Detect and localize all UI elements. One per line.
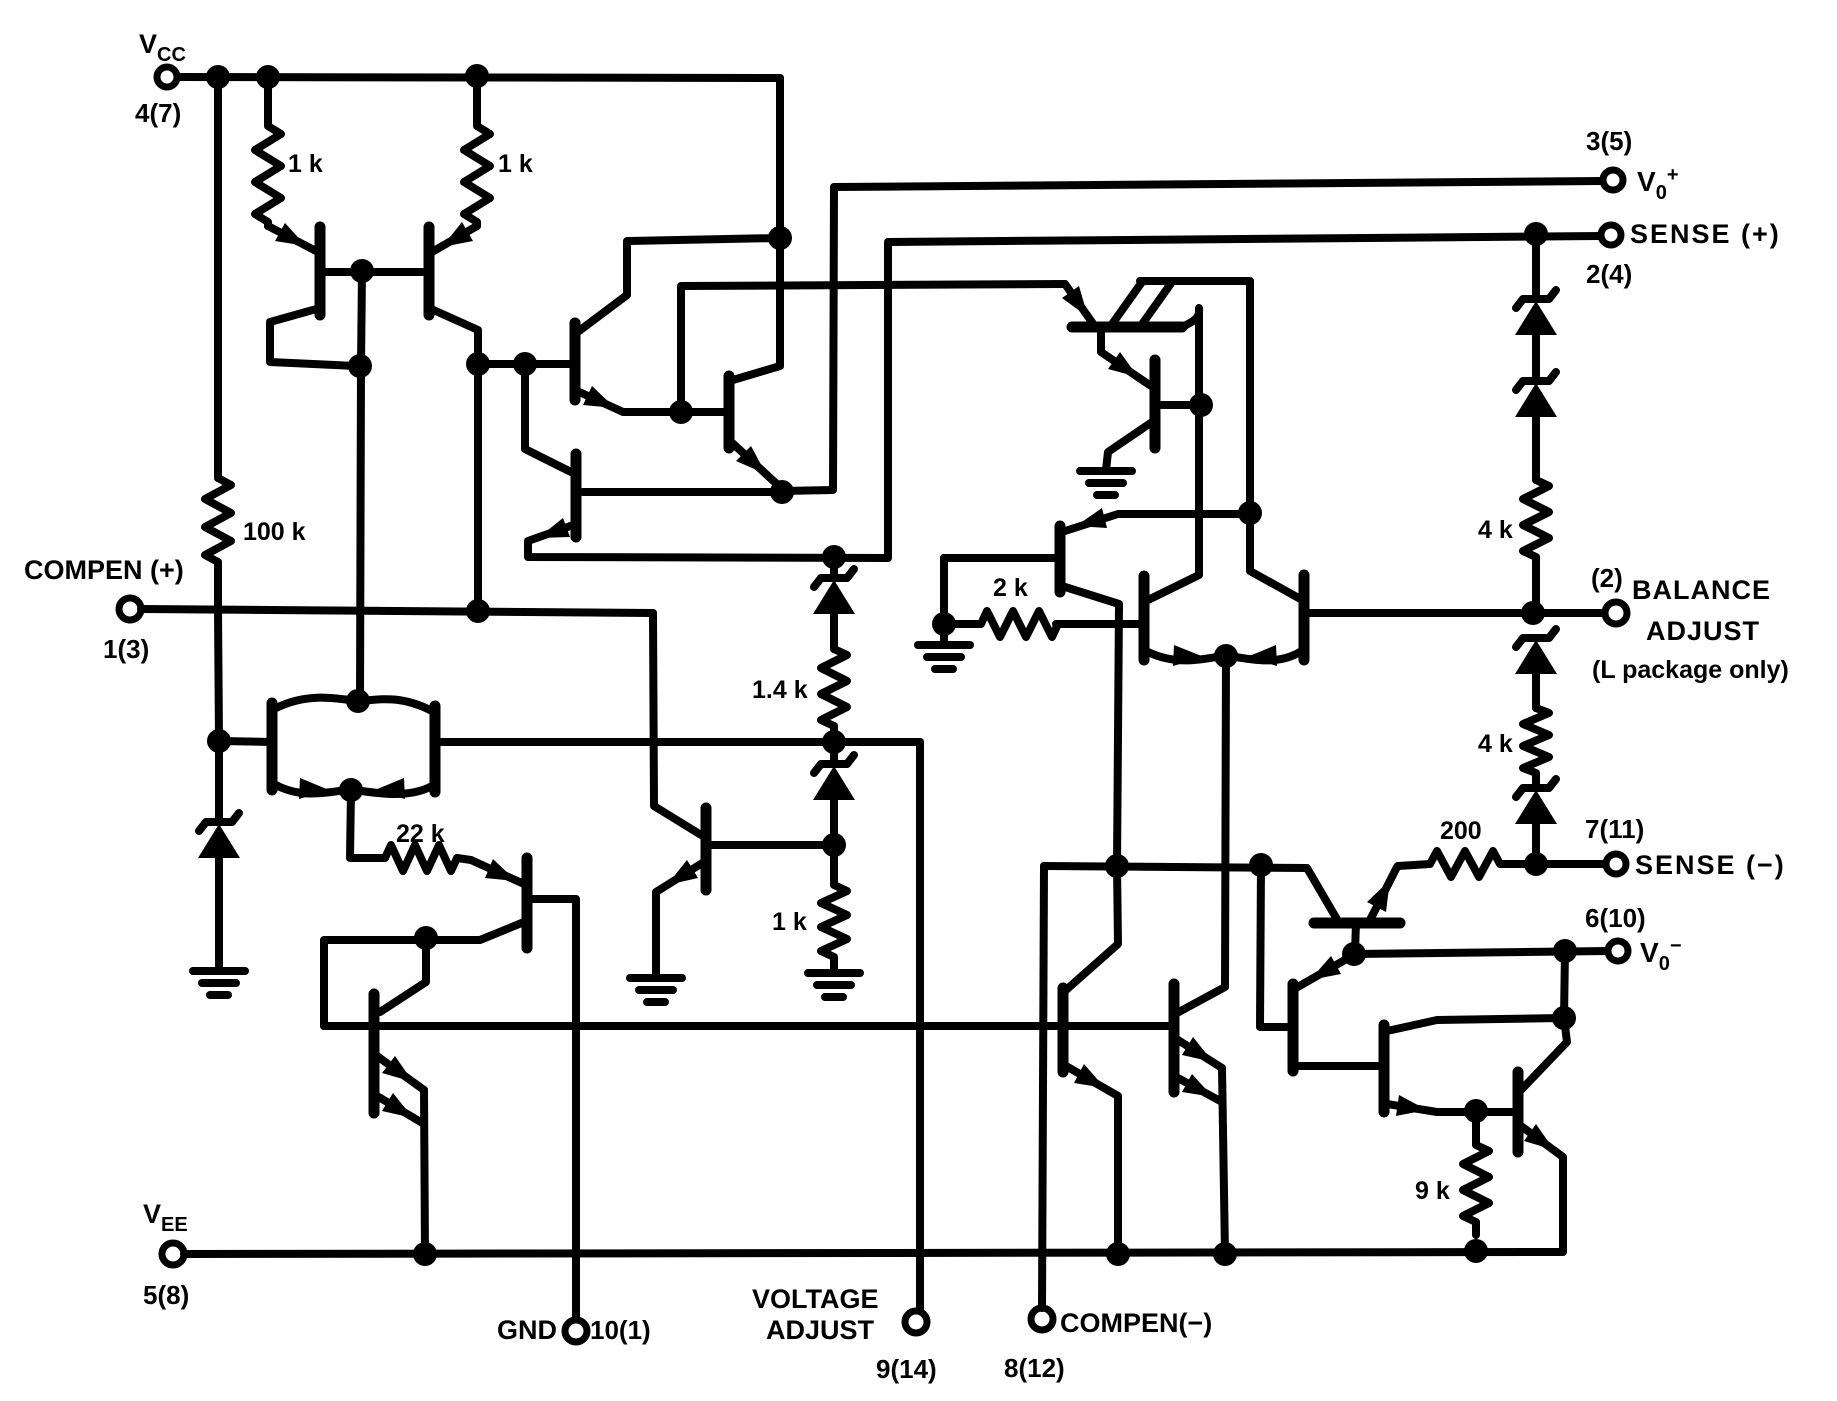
svg-text:22 k: 22 k	[396, 820, 445, 848]
svg-text:COMPEN (+): COMPEN (+)	[24, 555, 184, 585]
ground under R5	[808, 973, 860, 997]
node junction output pair collector	[1238, 501, 1262, 525]
transistor Q3	[575, 238, 778, 412]
node junction Q18 collector / x1564	[1552, 1006, 1576, 1030]
svg-text:VOLTAGE: VOLTAGE	[752, 1284, 879, 1314]
node junction VCC-R1	[256, 65, 280, 89]
node junction 9k / VEE	[1464, 1239, 1488, 1263]
node junction 9k top	[1464, 1099, 1488, 1123]
resistor R3 100k	[205, 478, 306, 562]
node COMPEN+ terminal 1(3)	[24, 555, 184, 664]
zener D1	[198, 813, 240, 971]
wire Q2 collector to COMPEN+	[474, 364, 482, 611]
node BALANCE ADJUST terminal (2)	[1591, 563, 1789, 684]
wire COMPEN+ column down	[218, 611, 219, 820]
node junction 2k ground	[932, 612, 956, 636]
transistor Q21 double emitter sink	[1174, 984, 1225, 1254]
node GND terminal 10(1)	[497, 1315, 651, 1345]
node junction VEE / Q14	[413, 1242, 437, 1266]
svg-text:10(1): 10(1)	[590, 1315, 651, 1345]
svg-text:SENSE (−): SENSE (−)	[1635, 850, 1786, 880]
node SENSE+ terminal 2(4)	[1586, 219, 1781, 289]
svg-text:COMPEN(−): COMPEN(−)	[1060, 1308, 1212, 1338]
svg-text:(L package only): (L package only)	[1592, 656, 1789, 684]
wire long mid rail	[324, 1022, 1174, 1030]
transistor Q6	[653, 613, 828, 977]
wire VO+ feed	[782, 181, 1603, 491]
resistor R9 4k	[1478, 708, 1549, 788]
zener D7	[1515, 779, 1557, 864]
node junction top-left feed	[768, 226, 792, 250]
wire VOLTAGE ADJUST column	[916, 742, 924, 1311]
node VOLTAGE ADJUST terminal 9(14)	[752, 1284, 937, 1384]
svg-text:6(10): 6(10)	[1585, 903, 1646, 933]
wire output emitters down	[1177, 656, 1226, 1013]
wire Q1 tie vertical	[360, 271, 362, 698]
svg-text:2 k: 2 k	[993, 574, 1028, 602]
node junction Q5 collector column	[513, 352, 537, 376]
transistor Q5	[525, 236, 1602, 558]
wire x780 vertical	[733, 78, 780, 380]
resistor R8 4k	[1478, 480, 1549, 613]
resistor R11 9k	[1415, 1111, 1489, 1235]
svg-text:5(8): 5(8)	[143, 1280, 189, 1310]
svg-text:1 k: 1 k	[288, 150, 323, 178]
node VO- terminal 6(10)	[1585, 903, 1682, 975]
svg-text:7(11): 7(11)	[1585, 814, 1644, 844]
svg-text:9 k: 9 k	[1415, 1177, 1450, 1205]
transistor Q16	[1293, 954, 1378, 1071]
svg-text:(2): (2)	[1591, 563, 1623, 593]
resistor R4 1.4k	[752, 649, 847, 742]
transistor Q8 driver	[1106, 360, 1197, 470]
transistor Q1	[268, 223, 424, 366]
resistor R6 22k	[385, 820, 471, 871]
node junction current limit base rail	[1249, 853, 1273, 877]
svg-text:4 k: 4 k	[1478, 516, 1513, 544]
wire COMPEN+ line	[141, 609, 653, 613]
svg-text:2(4): 2(4)	[1586, 259, 1632, 289]
node junction COMPEN+/Q2 leg	[466, 599, 490, 623]
zener D6	[1515, 629, 1557, 708]
transistor Q17 current limit	[1314, 866, 1400, 952]
wire diff pair right base	[438, 738, 920, 746]
wire Q4 emitter to Q5 base	[583, 488, 782, 496]
ground under Q6	[630, 978, 682, 1002]
node junction Q20 / VEE	[1106, 1242, 1130, 1266]
resistor R5 1k	[772, 845, 847, 973]
svg-text:1.4 k: 1.4 k	[752, 676, 808, 704]
differential pair left (Q11 Q12)	[219, 698, 435, 799]
wire Q2col to Q3 base	[478, 360, 575, 368]
node junction diff pair emitters	[339, 778, 363, 802]
resistor R1 1k	[255, 77, 323, 226]
node junction BALANCE / zener column	[1521, 601, 1545, 625]
wire branch up to y283 line	[681, 284, 1065, 412]
wire VCC top rail	[178, 77, 780, 78]
node junction VO- / Q17 base	[1342, 942, 1366, 966]
wire to Q16 base	[1260, 865, 1291, 1027]
zener D5	[1515, 372, 1557, 480]
transistor Q13 pnp to GND pin	[324, 858, 576, 1320]
wire VCC to 100k	[214, 77, 222, 478]
node VCC terminal 4(7)	[135, 29, 186, 128]
wire x1564 vertical	[1521, 951, 1567, 1090]
resistor R10 200	[1398, 817, 1535, 877]
node junction SENSE- / zener column	[1524, 852, 1548, 876]
ground under Q8	[1080, 471, 1132, 495]
svg-text:4(7): 4(7)	[135, 98, 181, 128]
zener D3	[813, 742, 855, 845]
node VO+ terminal 3(5)	[1586, 126, 1679, 204]
node junction diff pair left base	[207, 729, 231, 753]
svg-text:SENSE (+): SENSE (+)	[1630, 219, 1781, 249]
node junction 1.4k / diff pair right base	[822, 730, 846, 754]
output pair Q10 Q15	[1144, 513, 1304, 666]
resistor R7 2k	[944, 558, 1144, 645]
wire VEE rail	[184, 1252, 1563, 1254]
svg-text:100 k: 100 k	[243, 518, 306, 546]
resistor R2 1k	[464, 76, 533, 226]
node COMPEN- terminal 8(12)	[1004, 1308, 1212, 1383]
node junction Q21 / VEE	[1213, 1242, 1237, 1266]
wire 2k to output pair left base	[1056, 620, 1144, 628]
svg-text:4 k: 4 k	[1478, 730, 1513, 758]
svg-text:GND: GND	[497, 1315, 557, 1345]
node junction zener chain top	[822, 545, 846, 569]
transistor Q19	[1518, 1072, 1563, 1251]
node junction Q8 collector	[1189, 393, 1213, 417]
node junction Q4 emitter / VO+	[770, 480, 794, 504]
node junction diff pair top	[346, 689, 370, 713]
svg-text:1 k: 1 k	[772, 908, 807, 936]
node junction zener/1k / Q6 base	[822, 833, 846, 857]
svg-text:1 k: 1 k	[498, 150, 533, 178]
wire 100k to COMPEN+ node	[214, 562, 222, 611]
transistor Q20 sink left	[1063, 866, 1118, 1254]
node SENSE- terminal 7(11)	[1585, 814, 1786, 880]
node SENSE+ junction at zener column	[1524, 222, 1548, 246]
transistor Q9 2k clamp	[944, 508, 1248, 866]
svg-text:ADJUST: ADJUST	[1646, 616, 1760, 646]
node junction VCC-R2	[465, 64, 489, 88]
transistor Q18	[1384, 1018, 1563, 1116]
svg-text:ADJUST: ADJUST	[766, 1315, 875, 1345]
svg-text:8(12): 8(12)	[1004, 1353, 1065, 1383]
wire SENSE- lead	[1536, 860, 1605, 868]
svg-text:200: 200	[1440, 817, 1482, 845]
wire diff pair tail to 22k	[350, 790, 385, 858]
ground under 2k	[918, 645, 970, 669]
transistor Q2	[429, 222, 478, 364]
node junction mid rail / Q9 collector	[1105, 854, 1129, 878]
zener D2	[813, 557, 855, 649]
node junction Q1 collector	[348, 354, 372, 378]
wire COMPEN- rail	[1044, 866, 1338, 921]
zener D4	[1515, 234, 1557, 380]
node junction Q3 emitter / VO+ branch	[669, 400, 693, 424]
node junction output pair emitters	[1214, 644, 1238, 668]
svg-text:9(14): 9(14)	[876, 1354, 937, 1384]
node junction VCC-100k	[206, 65, 230, 89]
node junction Q2 collector	[466, 352, 490, 376]
node junction VO- / x1564	[1553, 939, 1577, 963]
wire Q8 collector down to output pair	[1148, 405, 1199, 600]
svg-text:BALANCE: BALANCE	[1632, 575, 1771, 605]
node junction Q1 base tie	[350, 259, 374, 283]
transistor Q14 double emitter	[374, 938, 426, 1254]
ground under D1	[193, 971, 245, 995]
node VEE terminal 5(8)	[143, 1199, 189, 1310]
transistor Q7 multi-collector pass	[1062, 281, 1250, 513]
svg-text:3(5): 3(5)	[1586, 126, 1632, 156]
wire COMPEN- column	[1042, 866, 1044, 1308]
wire VO- line	[1354, 951, 1608, 954]
node junction Q13 base / Q14	[414, 926, 438, 950]
transistor Q4	[729, 376, 780, 487]
wire BALANCE line	[1308, 609, 1606, 617]
svg-text:1(3): 1(3)	[103, 634, 149, 664]
